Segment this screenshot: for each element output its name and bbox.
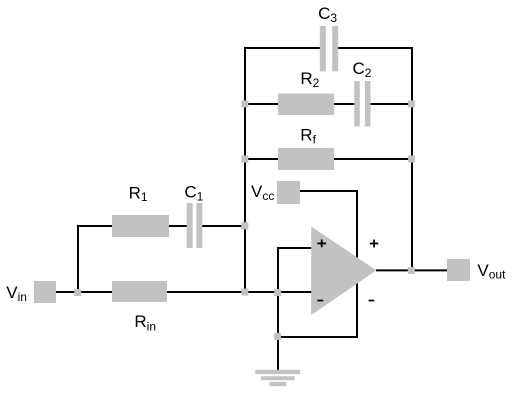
node junction right bus / R2 row [408,100,415,107]
wire C2 to right bus [370,103,413,105]
resistor Rin [112,281,167,302]
wire R2 to C2 [333,103,355,105]
terminal Vout [447,259,470,281]
op-amp minus input marking [317,300,323,302]
wire output [376,269,447,271]
terminal Vin [34,281,56,303]
wire ground stem [277,336,279,370]
op-amp minus rail marking [369,300,375,302]
wire Rf row left [245,158,280,160]
wire Vcc horizontal [300,190,358,192]
wire bottom rail [277,336,358,338]
capacitor C1 [187,203,203,248]
wire C1 to left bus [202,225,246,227]
node junction ground / bottom rail [274,333,281,340]
op-amp plus rail marking [370,240,378,248]
wire branch to R1 [77,225,113,227]
node junction left bus / Rf row [241,156,248,163]
wire top feedback left segment [244,47,320,49]
wire Vin to Rin [56,291,113,293]
node junction right bus / output [408,267,415,274]
wire Vin branch vertical to R1 [77,225,79,293]
node junction Vin branch [74,289,81,296]
node junction left bus / input row [241,289,248,296]
resistor R2 [278,94,334,116]
resistor Rf [278,148,334,170]
wire left vertical bus [244,47,246,293]
node junction right bus / Rf row [408,156,415,163]
wire right vertical bus [411,47,413,271]
wire Rf row right [333,158,412,160]
wire plus branch vertical [277,247,279,337]
wire top feedback right segment [338,47,413,49]
node junction plus branch / input row [274,289,281,296]
capacitor C2 [354,81,370,126]
node junction left bus / C1 row [241,222,248,229]
wire R1 to C1 [168,225,188,227]
wire Vcc rail vertical [356,190,358,338]
terminal Vcc [277,181,300,204]
op-amp plus input marking [317,239,326,247]
resistor R1 [112,215,169,237]
op-amp U1 [311,227,376,316]
wire plus input horizontal [277,247,312,249]
node junction left bus / R2 row [241,100,248,107]
wire Rin to op-amp minus input [166,291,312,293]
wire R2 row left [245,103,280,105]
ground [255,370,300,386]
capacitor C3 [320,26,338,71]
